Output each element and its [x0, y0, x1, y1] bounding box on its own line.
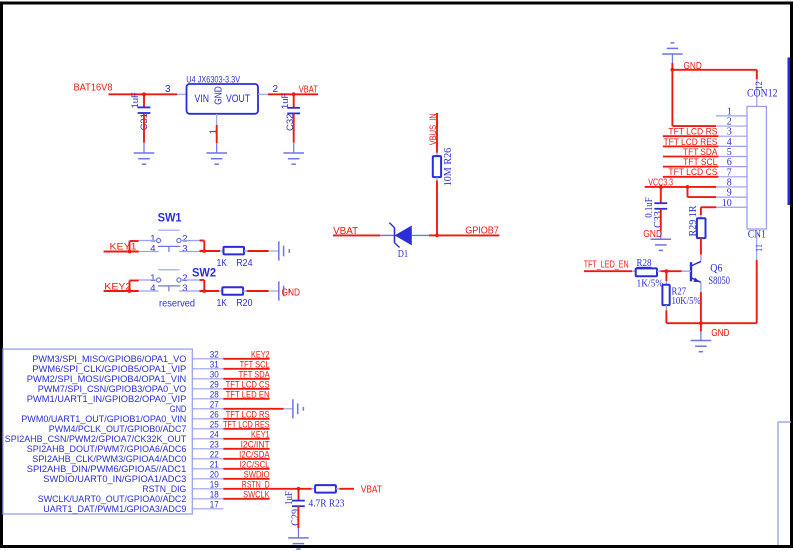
svg-text:TFT SCL: TFT SCL — [683, 157, 717, 167]
net label TFT LCD RES (pin 25) — [223, 428, 269, 430]
wire R29 to Q6 collector — [700, 238, 702, 255]
ground below C29 — [288, 537, 309, 539]
svg-text:SW2: SW2 — [192, 267, 216, 279]
wire U4 GND to ground — [216, 125, 218, 143]
svg-text:4: 4 — [150, 283, 155, 294]
wire VCC3.3 to pin 9 of CN1 — [687, 187, 689, 197]
wire KEY2 corner to pin 1 — [129, 281, 131, 292]
net label TFT LCD RS (pin 26) — [223, 418, 269, 420]
wire at bottom right corner — [778, 421, 791, 423]
svg-text:U4 JX6303-3.3V: U4 JX6303-3.3V — [186, 75, 240, 85]
wire to bottom ground — [700, 323, 702, 331]
pin 3 wire of SW2 — [179, 290, 199, 292]
svg-text:VOUT: VOUT — [226, 93, 250, 105]
connector CN1 body — [747, 106, 766, 229]
node junction at C31 tap — [142, 92, 146, 96]
node junction at C32 tap — [292, 92, 296, 96]
svg-text:SWCLK/UART0_OUT/GPIOA0/ADC2: SWCLK/UART0_OUT/GPIOA0/ADC2 — [38, 494, 187, 504]
svg-text:4.7R R23: 4.7R R23 — [309, 499, 345, 510]
wire SW1 right corner — [200, 240, 205, 242]
svg-text:I2C/SCL: I2C/SCL — [240, 459, 270, 469]
pin 2 wire of SW1 — [181, 240, 200, 242]
svg-text:TFT LCD CS: TFT LCD CS — [668, 167, 717, 177]
wire C31 to ground — [143, 114, 145, 143]
wire C29 to ground — [297, 506, 299, 528]
svg-text:GND: GND — [170, 404, 187, 414]
svg-text:SPI2AHB_CSN/PWM2/GPIOA7/CK32K_: SPI2AHB_CSN/PWM2/GPIOA7/CK32K_OUT — [5, 434, 187, 444]
svg-text:GND: GND — [643, 229, 662, 240]
svg-text:reserved: reserved — [159, 298, 195, 310]
node junction KEY1 — [128, 250, 132, 254]
svg-text:4: 4 — [150, 243, 155, 254]
net label I2C/SCL (pin 21) — [223, 468, 269, 470]
wire KEY1 — [104, 251, 139, 253]
capacitor C29 1uF — [298, 489, 300, 501]
node junction VCC3.3 at C33 — [659, 185, 663, 189]
net label TFT LCD CS (CN1 pin 7) — [663, 176, 719, 178]
net label TFT LCD RS (CN1 pin 3) — [663, 135, 719, 137]
wire R27 to GND rail — [665, 305, 667, 310]
capacitor C32 1uF — [293, 94, 295, 107]
svg-text:R24: R24 — [236, 258, 253, 269]
net label TFT SDA (CN1 pin 5) — [663, 156, 719, 158]
resistor R20 1K — [222, 287, 243, 295]
wire GND rail to pin 11 of CN1 — [756, 260, 758, 324]
net label I2C/SDA (pin 22) — [223, 458, 269, 460]
resistor R24 1K — [224, 247, 245, 255]
svg-text:1uF: 1uF — [130, 92, 141, 109]
svg-text:VBAT: VBAT — [299, 84, 318, 95]
net label SWCLK (pin 18) — [223, 498, 269, 500]
net label TFT SCL (pin 31) — [223, 368, 269, 370]
net label TFT LCD RES (CN1 pin 4) — [663, 145, 719, 147]
svg-text:1K: 1K — [217, 298, 228, 309]
wire R24 to ground bar — [244, 250, 248, 252]
svg-text:1K/5%: 1K/5% — [637, 278, 664, 289]
node junction KEY2 — [128, 289, 132, 293]
pin 11 of CN1 — [756, 229, 758, 260]
svg-text:TFT LCD RES: TFT LCD RES — [223, 419, 270, 429]
svg-text:PWM4/PCLK_OUT/GPIOB0/ADC7: PWM4/PCLK_OUT/GPIOB0/ADC7 — [49, 424, 187, 434]
svg-text:SWCLK: SWCLK — [243, 489, 270, 499]
svg-text:SPI2AHB_DIN/PWM6/GPIOA5//ADC1: SPI2AHB_DIN/PWM6/GPIOA5//ADC1 — [27, 464, 187, 474]
zener diode D1 — [396, 226, 412, 244]
pin 4 wire of SW2 — [139, 290, 159, 292]
pin 2 of U4 — [258, 93, 268, 95]
svg-text:TFT LED EN: TFT LED EN — [226, 389, 270, 399]
svg-text:GND: GND — [282, 287, 301, 298]
svg-text:C29: C29 — [291, 509, 302, 526]
net label RSTN_D (pin 19) — [223, 488, 269, 490]
svg-text:S8050: S8050 — [708, 273, 730, 287]
svg-text:VIN: VIN — [195, 93, 210, 105]
svg-text:RSTN_DIG: RSTN_DIG — [142, 484, 186, 494]
pin 1 of U4 — [216, 114, 218, 125]
svg-text:GND: GND — [711, 328, 729, 339]
node junction at C29 tap — [297, 487, 301, 491]
node junction at D1 cathode net — [435, 234, 439, 238]
svg-text:PWM6/SPI_CLK/GPIOB5/OPA1_VIP: PWM6/SPI_CLK/GPIOB5/OPA1_VIP — [32, 364, 186, 374]
svg-text:TFT_LED_EN: TFT_LED_EN — [584, 260, 629, 271]
wire GND rail bottom — [666, 322, 756, 324]
wire ground to GND net — [671, 63, 673, 70]
svg-text:Q6: Q6 — [710, 260, 722, 274]
svg-text:TFT SDA: TFT SDA — [239, 369, 271, 379]
svg-text:BAT16V8: BAT16V8 — [74, 83, 114, 94]
net label KEY2 (pin 32) — [223, 358, 269, 360]
wire R26 to GPIOB7 net — [436, 177, 438, 180]
svg-text:10M R26: 10M R26 — [443, 148, 454, 187]
resistor R27 10K/5% — [665, 271, 667, 281]
ground below C32 — [283, 152, 304, 154]
pin 1 wire of SW2 — [139, 279, 157, 281]
svg-text:GND: GND — [213, 86, 225, 105]
wire R28 to Q6 base — [657, 270, 661, 272]
mcu U? block — [3, 349, 192, 514]
capacitor C31 1uF — [143, 94, 145, 106]
wire pin 27 GND to ground bar — [223, 408, 283, 410]
svg-text:TFT LCD RES: TFT LCD RES — [664, 137, 718, 147]
wire GND to pin 12 of CN1 — [672, 69, 756, 71]
svg-text:SWDIO: SWDIO — [244, 469, 270, 479]
wire C32 to ground — [293, 113, 295, 142]
svg-text:VBAT: VBAT — [361, 483, 382, 495]
ground bar right of R24 — [278, 241, 280, 260]
wire VBUS_IN to R26 — [436, 113, 438, 153]
svg-text:SPI2AHB_CLK/PWM3/GPIOA4/ADC0: SPI2AHB_CLK/PWM3/GPIOA4/ADC0 — [32, 454, 186, 464]
wire Q6 emitter down — [700, 282, 702, 292]
node junction SW1 output — [202, 249, 206, 253]
svg-text:PWM3/SPI_MISO/GPIOB6/OPA1_VO: PWM3/SPI_MISO/GPIOB6/OPA1_VO — [32, 354, 186, 364]
svg-text:R29 1R: R29 1R — [688, 206, 699, 237]
wire junction to GPIOB7 — [437, 234, 499, 236]
svg-text:1uF: 1uF — [284, 491, 295, 505]
node junction SW2 output — [202, 289, 206, 293]
net label I2C/INT (pin 23) — [223, 448, 269, 450]
ground below C31 — [134, 152, 155, 154]
net label TFT SDA (pin 30) — [223, 378, 269, 380]
wire SW2 right corner — [200, 279, 205, 281]
pin 12 of CN1 — [756, 79, 758, 106]
node junction GND — [671, 68, 675, 72]
svg-text:TFT SCL: TFT SCL — [240, 359, 270, 369]
pin 4 wire of SW1 — [139, 251, 159, 253]
svg-text:RSTN_D: RSTN_D — [242, 479, 270, 489]
net label KEY1 (pin 24) — [223, 438, 269, 440]
svg-text:KEY1: KEY1 — [251, 429, 270, 439]
ground bar at pin 27 — [292, 399, 294, 418]
wire GND to pin 2 of CN1 — [671, 70, 673, 126]
svg-text:10K/5%: 10K/5% — [672, 296, 702, 307]
pin 3 of U4 — [177, 93, 187, 95]
net label TFT LCD CS (pin 29) — [223, 388, 269, 390]
net label TFT LED EN (pin 28) — [223, 398, 269, 400]
wire TFT_LED_EN to R28 — [584, 270, 632, 272]
svg-text:2: 2 — [273, 84, 279, 95]
svg-text:PWM1/UART1_IN/GPIOB2/OPA0_VIP: PWM1/UART1_IN/GPIOB2/OPA0_VIP — [27, 394, 186, 404]
wire RSTN_D net to R23 — [270, 488, 312, 490]
wire R20 to GND — [243, 290, 246, 292]
pin 2 wire of SW2 — [181, 279, 200, 281]
svg-text:PWM0/UART1_OUT/GPIOB1/OPA0_VIN: PWM0/UART1_OUT/GPIOB1/OPA0_VIN — [21, 414, 186, 424]
svg-text:SWDIO/UART0_IN/GPIOA1/ADC3: SWDIO/UART0_IN/GPIOA1/ADC3 — [43, 474, 186, 484]
svg-text:3: 3 — [182, 243, 187, 254]
svg-text:CON12: CON12 — [747, 86, 778, 100]
wire BAT16V8 to U4 pin 3 — [109, 93, 178, 95]
net label SWDIO (pin 20) — [223, 478, 269, 480]
net label TFT SCL (CN1 pin 6) — [663, 166, 719, 168]
svg-text:3: 3 — [182, 283, 187, 294]
svg-text:3: 3 — [165, 84, 171, 95]
wire D1 to junction — [411, 234, 429, 236]
transistor Q6 S8050 — [690, 262, 692, 281]
ground bar right of R20 — [278, 281, 280, 300]
svg-text:TFT SDA: TFT SDA — [683, 147, 718, 157]
wire U4 VOUT to VBAT — [268, 93, 318, 95]
svg-text:PWM2/SPI_MOSI/GPIOB4/OPA1_VIN: PWM2/SPI_MOSI/GPIOB4/OPA1_VIN — [27, 374, 187, 384]
svg-text:C33: C33 — [653, 211, 664, 228]
svg-text:SPI2AHB_DOUT/PWM7/GPIOA6/ADC6: SPI2AHB_DOUT/PWM7/GPIOA6/ADC6 — [27, 444, 187, 454]
wire pin 10 of CN1 to R29 — [701, 206, 716, 208]
svg-text:TFT LCD RS: TFT LCD RS — [668, 127, 717, 137]
wire KEY2 — [104, 290, 139, 292]
resistor R23 4.7R — [315, 485, 336, 493]
ground below Q6 — [691, 340, 712, 342]
svg-text:1: 1 — [208, 129, 219, 135]
svg-text:GPIOB7: GPIOB7 — [465, 225, 499, 237]
svg-text:KEY2: KEY2 — [251, 349, 270, 359]
svg-text:I2C/SDA: I2C/SDA — [239, 449, 270, 459]
ground above CON12 (inverted) — [671, 42, 675, 44]
resistor R26 10M — [433, 156, 441, 177]
svg-text:1K: 1K — [217, 258, 228, 269]
svg-text:SW1: SW1 — [158, 213, 183, 225]
resistor R29 1R — [697, 218, 706, 238]
wire VBAT to D1 — [333, 234, 380, 236]
ground below U4 — [206, 152, 227, 154]
capacitor C33 0.1uF — [660, 187, 662, 203]
svg-text:11: 11 — [755, 244, 765, 252]
wire R23 to VBAT — [336, 488, 340, 490]
svg-text:D1: D1 — [398, 249, 408, 260]
pin 3 wire of SW1 — [179, 251, 199, 253]
svg-text:R20: R20 — [236, 298, 253, 309]
pin 1 wire of SW1 — [139, 240, 157, 242]
svg-text:TFT LCD RS: TFT LCD RS — [226, 409, 270, 419]
wire KEY1 corner to pin 1 — [129, 241, 131, 252]
ground below C33 — [651, 238, 672, 240]
node junction emitter-GND — [699, 321, 703, 325]
svg-text:PWM7/SPI_CSN/GPIOB3/OPA0_VO: PWM7/SPI_CSN/GPIOB3/OPA0_VO — [38, 384, 187, 394]
svg-text:UART1_DAT/PWM1/GPIOA3/ADC9: UART1_DAT/PWM1/GPIOA3/ADC9 — [43, 504, 186, 514]
svg-text:I2C/INT: I2C/INT — [241, 439, 270, 449]
node junction VCC3.3 at pin 9 branch — [686, 185, 690, 189]
node junction at R27 tap — [665, 269, 669, 273]
svg-text:TFT LCD CS: TFT LCD CS — [226, 379, 270, 389]
wire at right edge (top) — [787, 58, 790, 206]
wire C33 to ground — [660, 209, 662, 231]
svg-text:1uF: 1uF — [280, 92, 291, 109]
